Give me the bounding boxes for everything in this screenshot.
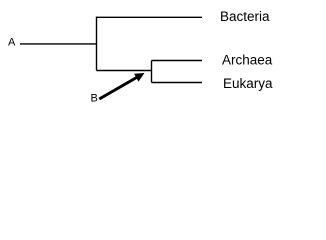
wire: root branch from A <box>20 43 97 45</box>
wire: second clade vertical bracket <box>151 61 153 83</box>
wire: Eukarya branch <box>152 82 203 84</box>
wire: Archaea branch <box>152 60 203 62</box>
svg-text:Bacteria: Bacteria <box>220 9 270 24</box>
svg-text:Archaea: Archaea <box>222 53 273 68</box>
wire: branch to second clade <box>97 70 152 72</box>
svg-text:B: B <box>91 93 98 105</box>
svg-text:Eukarya: Eukarya <box>223 76 273 91</box>
wire: first clade vertical bracket <box>96 17 98 71</box>
arrow from B pointing to second clade node <box>99 73 144 99</box>
wire: Bacteria branch <box>97 16 203 18</box>
svg-text:A: A <box>8 37 16 49</box>
